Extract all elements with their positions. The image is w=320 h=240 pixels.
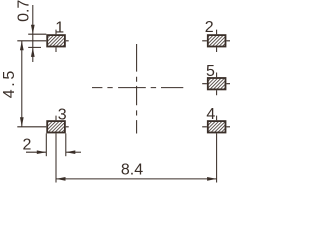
svg-text:0.7: 0.7 bbox=[16, 0, 33, 22]
dimension 8.4 arrow left bbox=[56, 177, 66, 181]
dimension 2 extension line (pad 3 left edge) bbox=[45, 133, 47, 156]
dimension 0.7 dimension line bbox=[32, 5, 34, 62]
center crosshair horizontal centerline bbox=[92, 87, 183, 89]
pad 5 bbox=[208, 78, 226, 89]
dimension 2 dimension line right bbox=[66, 151, 81, 153]
dimension 4.5 arrow down bbox=[20, 117, 24, 127]
svg-text:1: 1 bbox=[55, 19, 64, 36]
dimension 2 dimension line left bbox=[26, 151, 46, 153]
dimension 8.4 extension line (pad 4 center) bbox=[216, 133, 218, 182]
pad 5 centerline ticks bbox=[202, 73, 230, 96]
pad 3 bbox=[47, 121, 65, 132]
dimension 8.4 dimension line bbox=[56, 178, 217, 180]
pad 2 centerline ticks bbox=[202, 30, 230, 52]
svg-text:4.5: 4.5 bbox=[1, 68, 18, 98]
dimension 8.4 extension line (pad 3 center) bbox=[55, 133, 57, 182]
dimension 0.7 extension line (pad 1 top edge) bbox=[28, 33, 46, 35]
dimension 4.5 extension line (pad 3 center) bbox=[17, 126, 46, 128]
dimension 8.4 arrow right bbox=[207, 177, 217, 181]
dimension 0.7 extension line (pad 1 bottom edge) bbox=[28, 46, 41, 48]
svg-text:4: 4 bbox=[206, 106, 215, 123]
svg-text:8.4: 8.4 bbox=[121, 162, 143, 179]
pad 4 centerline ticks bbox=[202, 116, 230, 127]
pad 4 bbox=[208, 121, 226, 132]
dimension 4.5 extension line (pad 1 center) bbox=[17, 40, 46, 42]
svg-text:2: 2 bbox=[23, 136, 32, 153]
pad 1 centerline ticks bbox=[56, 30, 69, 52]
dimension 0.7 arrow up bbox=[31, 47, 35, 57]
svg-text:2: 2 bbox=[205, 19, 214, 36]
pad 1 bbox=[47, 35, 65, 46]
dimension 4.5 arrow up bbox=[20, 41, 24, 51]
center crosshair vertical centerline bbox=[136, 44, 138, 134]
dimension 2 extension line (pad 3 right edge) bbox=[65, 133, 67, 156]
dimension 0.7 arrow down bbox=[31, 25, 35, 35]
dimension 4.5 dimension line bbox=[21, 41, 23, 127]
svg-text:3: 3 bbox=[58, 106, 67, 123]
pad 2 bbox=[208, 35, 226, 46]
pad 3 centerline ticks bbox=[56, 116, 69, 127]
svg-text:5: 5 bbox=[206, 63, 215, 80]
dimension 2 arrow left bbox=[66, 150, 76, 154]
dimension 2 arrow right bbox=[37, 150, 47, 154]
